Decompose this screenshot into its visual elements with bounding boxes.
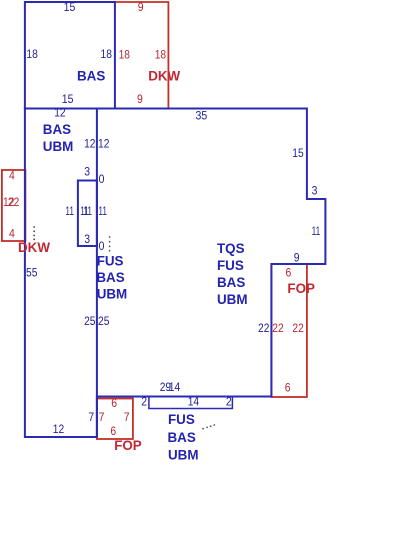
svg-text:11: 11 xyxy=(83,204,92,218)
svg-text:14: 14 xyxy=(169,380,181,394)
svg-text:BAS: BAS xyxy=(96,270,124,285)
svg-text:18: 18 xyxy=(119,48,131,62)
svg-text:22: 22 xyxy=(292,321,304,335)
svg-text:UBM: UBM xyxy=(217,292,248,307)
svg-text:UBM: UBM xyxy=(168,447,199,462)
stair rect (mid left) xyxy=(78,181,97,247)
svg-text:DKW: DKW xyxy=(148,68,180,83)
dotted leader near DKW xyxy=(33,226,35,240)
svg-text:FUS: FUS xyxy=(217,258,244,273)
svg-text:15: 15 xyxy=(62,92,74,106)
wire internal wall x=96.5 xyxy=(96,109,98,438)
svg-text:18: 18 xyxy=(101,47,113,61)
svg-text:TQS: TQS xyxy=(217,241,245,256)
svg-text:15: 15 xyxy=(292,146,304,160)
porch rect (bottom) xyxy=(149,397,233,409)
svg-text:25: 25 xyxy=(84,314,96,328)
svg-text:FUS: FUS xyxy=(168,412,195,427)
svg-text:12: 12 xyxy=(84,137,96,151)
svg-text:6: 6 xyxy=(286,265,292,279)
room FOP (bottom annex) red outline xyxy=(97,399,133,440)
svg-text:11: 11 xyxy=(98,204,107,218)
svg-text:2: 2 xyxy=(226,394,232,408)
svg-text:FOP: FOP xyxy=(287,281,315,296)
svg-text:6: 6 xyxy=(111,396,117,410)
svg-text:2: 2 xyxy=(141,394,147,408)
svg-text:DKW: DKW xyxy=(18,240,50,255)
svg-text:BAS: BAS xyxy=(217,275,245,290)
svg-text:BAS: BAS xyxy=(43,122,71,137)
svg-text:12: 12 xyxy=(54,105,66,119)
svg-text:22: 22 xyxy=(272,321,284,335)
svg-text:FUS: FUS xyxy=(97,253,124,268)
svg-text:7: 7 xyxy=(88,410,94,424)
room DKW (top right) red outline xyxy=(115,2,168,109)
svg-text:UBM: UBM xyxy=(43,139,74,154)
svg-text:3: 3 xyxy=(84,165,90,179)
svg-text:22: 22 xyxy=(258,321,270,335)
svg-text:3: 3 xyxy=(312,184,318,198)
svg-text:3: 3 xyxy=(84,232,90,246)
room FOP (right annex) red outline xyxy=(271,264,307,397)
svg-text:55: 55 xyxy=(26,266,38,280)
svg-text:18: 18 xyxy=(155,48,167,62)
svg-text:9: 9 xyxy=(294,251,300,265)
room BAS (top left) blue outline xyxy=(25,2,115,109)
svg-text:15: 15 xyxy=(64,0,76,14)
svg-text:12: 12 xyxy=(53,422,65,436)
svg-text:7: 7 xyxy=(124,410,130,424)
svg-text:18: 18 xyxy=(26,47,38,61)
svg-text:11: 11 xyxy=(65,204,74,218)
svg-text:BAS: BAS xyxy=(77,68,105,83)
svg-text:9: 9 xyxy=(138,0,144,14)
svg-text:4: 4 xyxy=(9,168,15,182)
svg-text:FOP: FOP xyxy=(114,438,142,453)
dotted leader near FUS mid xyxy=(109,236,111,252)
dotted leader near FUS bottom xyxy=(202,424,215,430)
svg-text:6: 6 xyxy=(285,381,291,395)
svg-text:BAS: BAS xyxy=(168,430,196,445)
svg-text:4: 4 xyxy=(9,226,15,240)
svg-text:14: 14 xyxy=(188,394,200,408)
svg-text:6: 6 xyxy=(110,424,116,438)
svg-text:7: 7 xyxy=(99,410,105,424)
room DKW (left annex) red outline xyxy=(2,170,26,241)
svg-text:UBM: UBM xyxy=(97,287,128,302)
svg-text:35: 35 xyxy=(196,108,208,122)
svg-text:0: 0 xyxy=(99,172,105,186)
main building outline xyxy=(25,109,326,438)
svg-text:0: 0 xyxy=(99,239,105,253)
svg-text:25: 25 xyxy=(98,314,110,328)
svg-text:11: 11 xyxy=(312,224,321,238)
svg-text:22: 22 xyxy=(8,195,20,209)
svg-text:12: 12 xyxy=(98,137,110,151)
svg-text:9: 9 xyxy=(137,92,143,106)
